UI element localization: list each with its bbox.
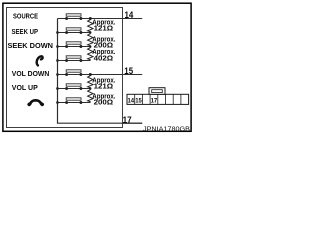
phone pick-up icon: [37, 56, 43, 65]
svg-text:SOURCE: SOURCE: [13, 11, 38, 20]
node bus/seek-down: [56, 45, 59, 48]
pin 15 stub wire: [122, 74, 142, 76]
svg-text:17: 17: [151, 99, 158, 105]
pin 17 stub wire: [122, 122, 142, 124]
wire phone pick-up row: [58, 60, 91, 62]
node C: [89, 45, 91, 47]
node bus/vol-up: [56, 87, 59, 90]
svg-text:17: 17: [123, 115, 132, 125]
node bus/phone1: [56, 59, 59, 62]
resistor R2: [88, 33, 93, 47]
svg-text:JPNIA1780GB: JPNIA1780GB: [143, 126, 190, 133]
phone hang-up icon: [27, 100, 45, 107]
svg-text:15: 15: [135, 99, 142, 105]
node bus/vol-down: [56, 73, 59, 76]
switch SEEK UP: [65, 28, 82, 34]
svg-text:200Ω: 200Ω: [94, 98, 114, 107]
svg-text:SEEK UP: SEEK UP: [12, 27, 39, 36]
node bus/phone2: [56, 101, 59, 104]
resistor R4 value label: [92, 75, 115, 90]
node D (chain2 top / pin 15): [89, 73, 92, 76]
svg-text:SEEK DOWN: SEEK DOWN: [8, 41, 54, 50]
svg-text:14: 14: [125, 10, 134, 20]
resistor R3 value label: [92, 47, 115, 62]
resistor R5 value label: [92, 91, 115, 106]
node B: [89, 31, 91, 33]
node E: [89, 87, 91, 89]
svg-text:14: 14: [128, 99, 135, 105]
switch phone pick-up: [65, 56, 82, 62]
svg-text:121Ω: 121Ω: [94, 24, 114, 33]
switch VOL DOWN: [65, 70, 82, 76]
outer frame: [3, 3, 191, 131]
resistor R1: [88, 19, 93, 33]
pin 14 stub wire: [122, 18, 142, 20]
wire phone hang-up row: [58, 102, 91, 104]
switch phone hang-up: [65, 98, 82, 104]
svg-text:15: 15: [124, 66, 133, 76]
wire SEEK DOWN row: [58, 46, 91, 48]
connector tab: [149, 88, 165, 95]
wire VOL UP row: [58, 88, 91, 90]
resistor R3: [88, 47, 93, 61]
steering switch assembly box: [6, 7, 123, 128]
wire SEEK UP row: [58, 32, 91, 34]
resistor R1 value label: [92, 17, 115, 32]
wire VOL DOWN row: [58, 74, 123, 76]
left common bus wire: [58, 19, 143, 124]
switch SOURCE: [65, 14, 82, 20]
switch SEEK DOWN: [65, 42, 82, 48]
switch VOL UP: [65, 84, 82, 90]
connector face: [127, 94, 189, 104]
node A (chain top / pin 14): [89, 17, 92, 20]
resistor R5: [88, 89, 93, 103]
resistor R2 value label: [92, 35, 115, 50]
resistor R4: [88, 75, 93, 89]
svg-text:402Ω: 402Ω: [94, 54, 114, 63]
svg-text:121Ω: 121Ω: [94, 82, 114, 91]
svg-text:VOL UP: VOL UP: [12, 83, 38, 92]
node bus/seek-up: [56, 31, 59, 34]
wire SOURCE row: [58, 18, 123, 20]
svg-text:VOL DOWN: VOL DOWN: [12, 69, 50, 78]
